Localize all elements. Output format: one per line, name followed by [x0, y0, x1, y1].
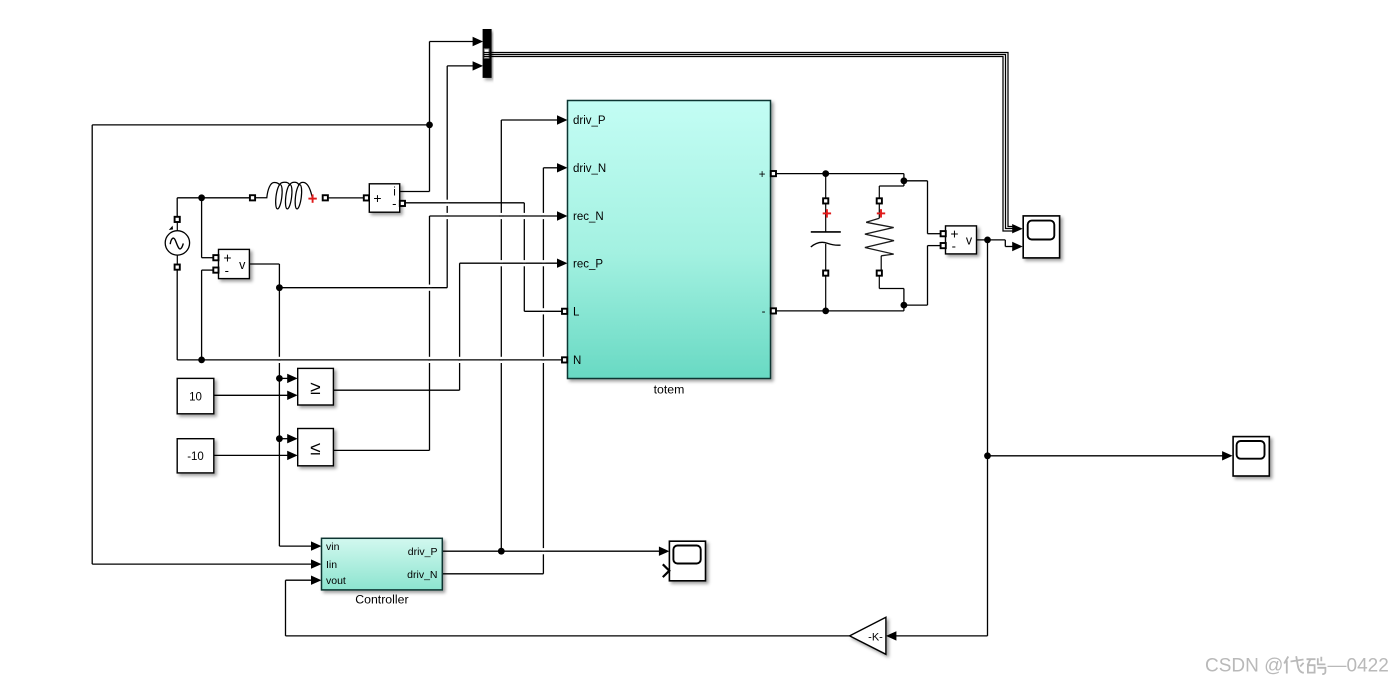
- wire: comparator LE output to totem rec_N: [333, 211, 567, 450]
- svg-text:+: +: [759, 169, 766, 181]
- mux block (vector concatenate): [483, 30, 491, 78]
- junction: + rail at capacitor: [822, 170, 829, 177]
- resistor + polarity mark: [877, 209, 885, 217]
- wire: voltage sensor v output to mux in2, comparators, controller vin: [249, 61, 483, 551]
- svg-text:≤: ≤: [310, 438, 320, 459]
- junction: v to GE comparator: [276, 375, 283, 382]
- svg-text:-: -: [392, 196, 396, 211]
- voltage measurement block V2: [946, 225, 977, 254]
- junction: - rail at capacitor: [822, 308, 829, 315]
- port: resistor bottom: [877, 271, 882, 276]
- port: I1 input +: [364, 195, 369, 200]
- scope block Scope2: [1233, 437, 1269, 476]
- scope block Scope1: [1023, 216, 1059, 258]
- port: totem N: [562, 357, 567, 362]
- resistor RL: [865, 186, 894, 289]
- capacitor + polarity mark: [823, 209, 831, 217]
- relational operator LE: [298, 429, 334, 466]
- junction: i signal branch: [426, 122, 433, 129]
- constant block -10: [177, 439, 214, 473]
- label: totem: [654, 383, 685, 397]
- port: V2 input -: [941, 243, 946, 248]
- svg-text:CSDN @: CSDN @: [1205, 656, 1283, 677]
- port: I1 output -: [400, 201, 405, 206]
- wire: v2 output to scope1, scope2 and gain input: [886, 240, 1233, 641]
- port: capacitor top: [823, 198, 828, 203]
- svg-text:vin: vin: [326, 541, 340, 553]
- svg-text:v: v: [966, 234, 973, 248]
- svg-text:Iin: Iin: [326, 559, 337, 571]
- wire: comparator GE output to totem rec_P: [333, 259, 567, 391]
- subsystem block: Controller: [322, 538, 443, 590]
- wire: controller driv_P to totem driv_P and scope3: [442, 115, 669, 556]
- svg-text:-: -: [762, 306, 766, 318]
- port: source -: [175, 265, 180, 270]
- junction: v to LE comparator: [276, 435, 283, 442]
- wire: inductor to current sensor input: [328, 197, 364, 199]
- current measurement block I1: [369, 184, 399, 212]
- svg-text:-: -: [225, 263, 229, 278]
- svg-text:rec_N: rec_N: [573, 211, 604, 223]
- port: inductor left: [250, 195, 255, 200]
- junction: branch to scope2: [984, 452, 991, 459]
- junction: driv_P branch to scope3: [498, 548, 505, 555]
- svg-text:driv_P: driv_P: [573, 115, 606, 127]
- scope block Scope3: [669, 541, 705, 581]
- voltage measurement block V1: [219, 249, 250, 278]
- svg-text:driv_N: driv_N: [407, 569, 437, 581]
- svg-text:rec_P: rec_P: [573, 258, 603, 270]
- wire: current sensor i output to mux in1 and controller Iin: [92, 37, 483, 569]
- svg-text:-10: -10: [187, 451, 204, 463]
- constant block 10: [177, 378, 214, 413]
- label: Controller: [355, 593, 408, 607]
- junction: v signal branch: [276, 284, 283, 291]
- scope3 unconnected input chevron: [663, 564, 670, 577]
- wire crossover gaps (no connection): [278, 200, 546, 555]
- svg-text:N: N: [573, 355, 581, 367]
- svg-text:vout: vout: [326, 575, 346, 587]
- junction: - rail at resistor/v2: [901, 302, 908, 309]
- wire: totem + rail to capacitor / resistor / v2+: [776, 174, 940, 234]
- inductor + polarity mark: [308, 194, 316, 202]
- port: resistor top: [877, 198, 882, 203]
- wire: AC source + to inductor / v+ (node A): [177, 198, 250, 258]
- wire: AC source - / v- / totem N (node N): [177, 269, 561, 360]
- svg-text:10: 10: [189, 391, 202, 403]
- junction: source bottom node: [198, 357, 205, 364]
- port: V1 input -: [213, 268, 218, 273]
- gain block -K-: [850, 617, 886, 654]
- watermark: CSDN @代码—0422: [1205, 656, 1389, 677]
- junction: + rail at resistor/v2: [901, 177, 908, 184]
- svg-text:Controller: Controller: [355, 593, 408, 607]
- port: source +: [175, 217, 180, 222]
- svg-text:-K-: -K-: [868, 631, 883, 643]
- wire: constant -10 to comparator LE in2: [214, 451, 298, 460]
- svg-text:-: -: [952, 239, 956, 254]
- svg-text:+: +: [373, 190, 381, 206]
- svg-text:totem: totem: [654, 383, 685, 397]
- svg-text:≥: ≥: [310, 378, 320, 399]
- wire: mux output vector bus to scope1: [491, 53, 1014, 232]
- relational operator GE: [298, 368, 334, 405]
- port: inductor right: [323, 195, 328, 200]
- port: V1 input +: [213, 255, 218, 260]
- svg-text:v: v: [239, 258, 246, 272]
- wire: constant 10 to comparator GE in2: [214, 391, 298, 400]
- port: totem -: [771, 308, 776, 313]
- AC voltage source Vac: [165, 219, 189, 267]
- port: capacitor bottom: [823, 271, 828, 276]
- port: totem L: [562, 309, 567, 314]
- svg-text:L: L: [573, 307, 580, 319]
- port: V2 input +: [941, 231, 946, 236]
- junction: v2 output branch: [984, 237, 991, 244]
- inductor Lb: [252, 182, 313, 209]
- junction: source top node: [198, 194, 205, 201]
- port: totem +: [771, 171, 776, 176]
- svg-text:driv_N: driv_N: [573, 163, 606, 175]
- svg-text:driv_P: driv_P: [408, 546, 438, 558]
- wire: totem - rail to capacitor / resistor / v2-: [776, 246, 940, 311]
- subsystem block: totem: [568, 101, 771, 379]
- wire: controller driv_N to totem driv_N: [442, 163, 567, 574]
- wire: gain output to controller vout: [286, 576, 850, 636]
- capacitor Co: [811, 174, 841, 311]
- wire: current sensor - output to totem L port: [402, 203, 561, 311]
- svg-text:—0422: —0422: [1328, 656, 1389, 677]
